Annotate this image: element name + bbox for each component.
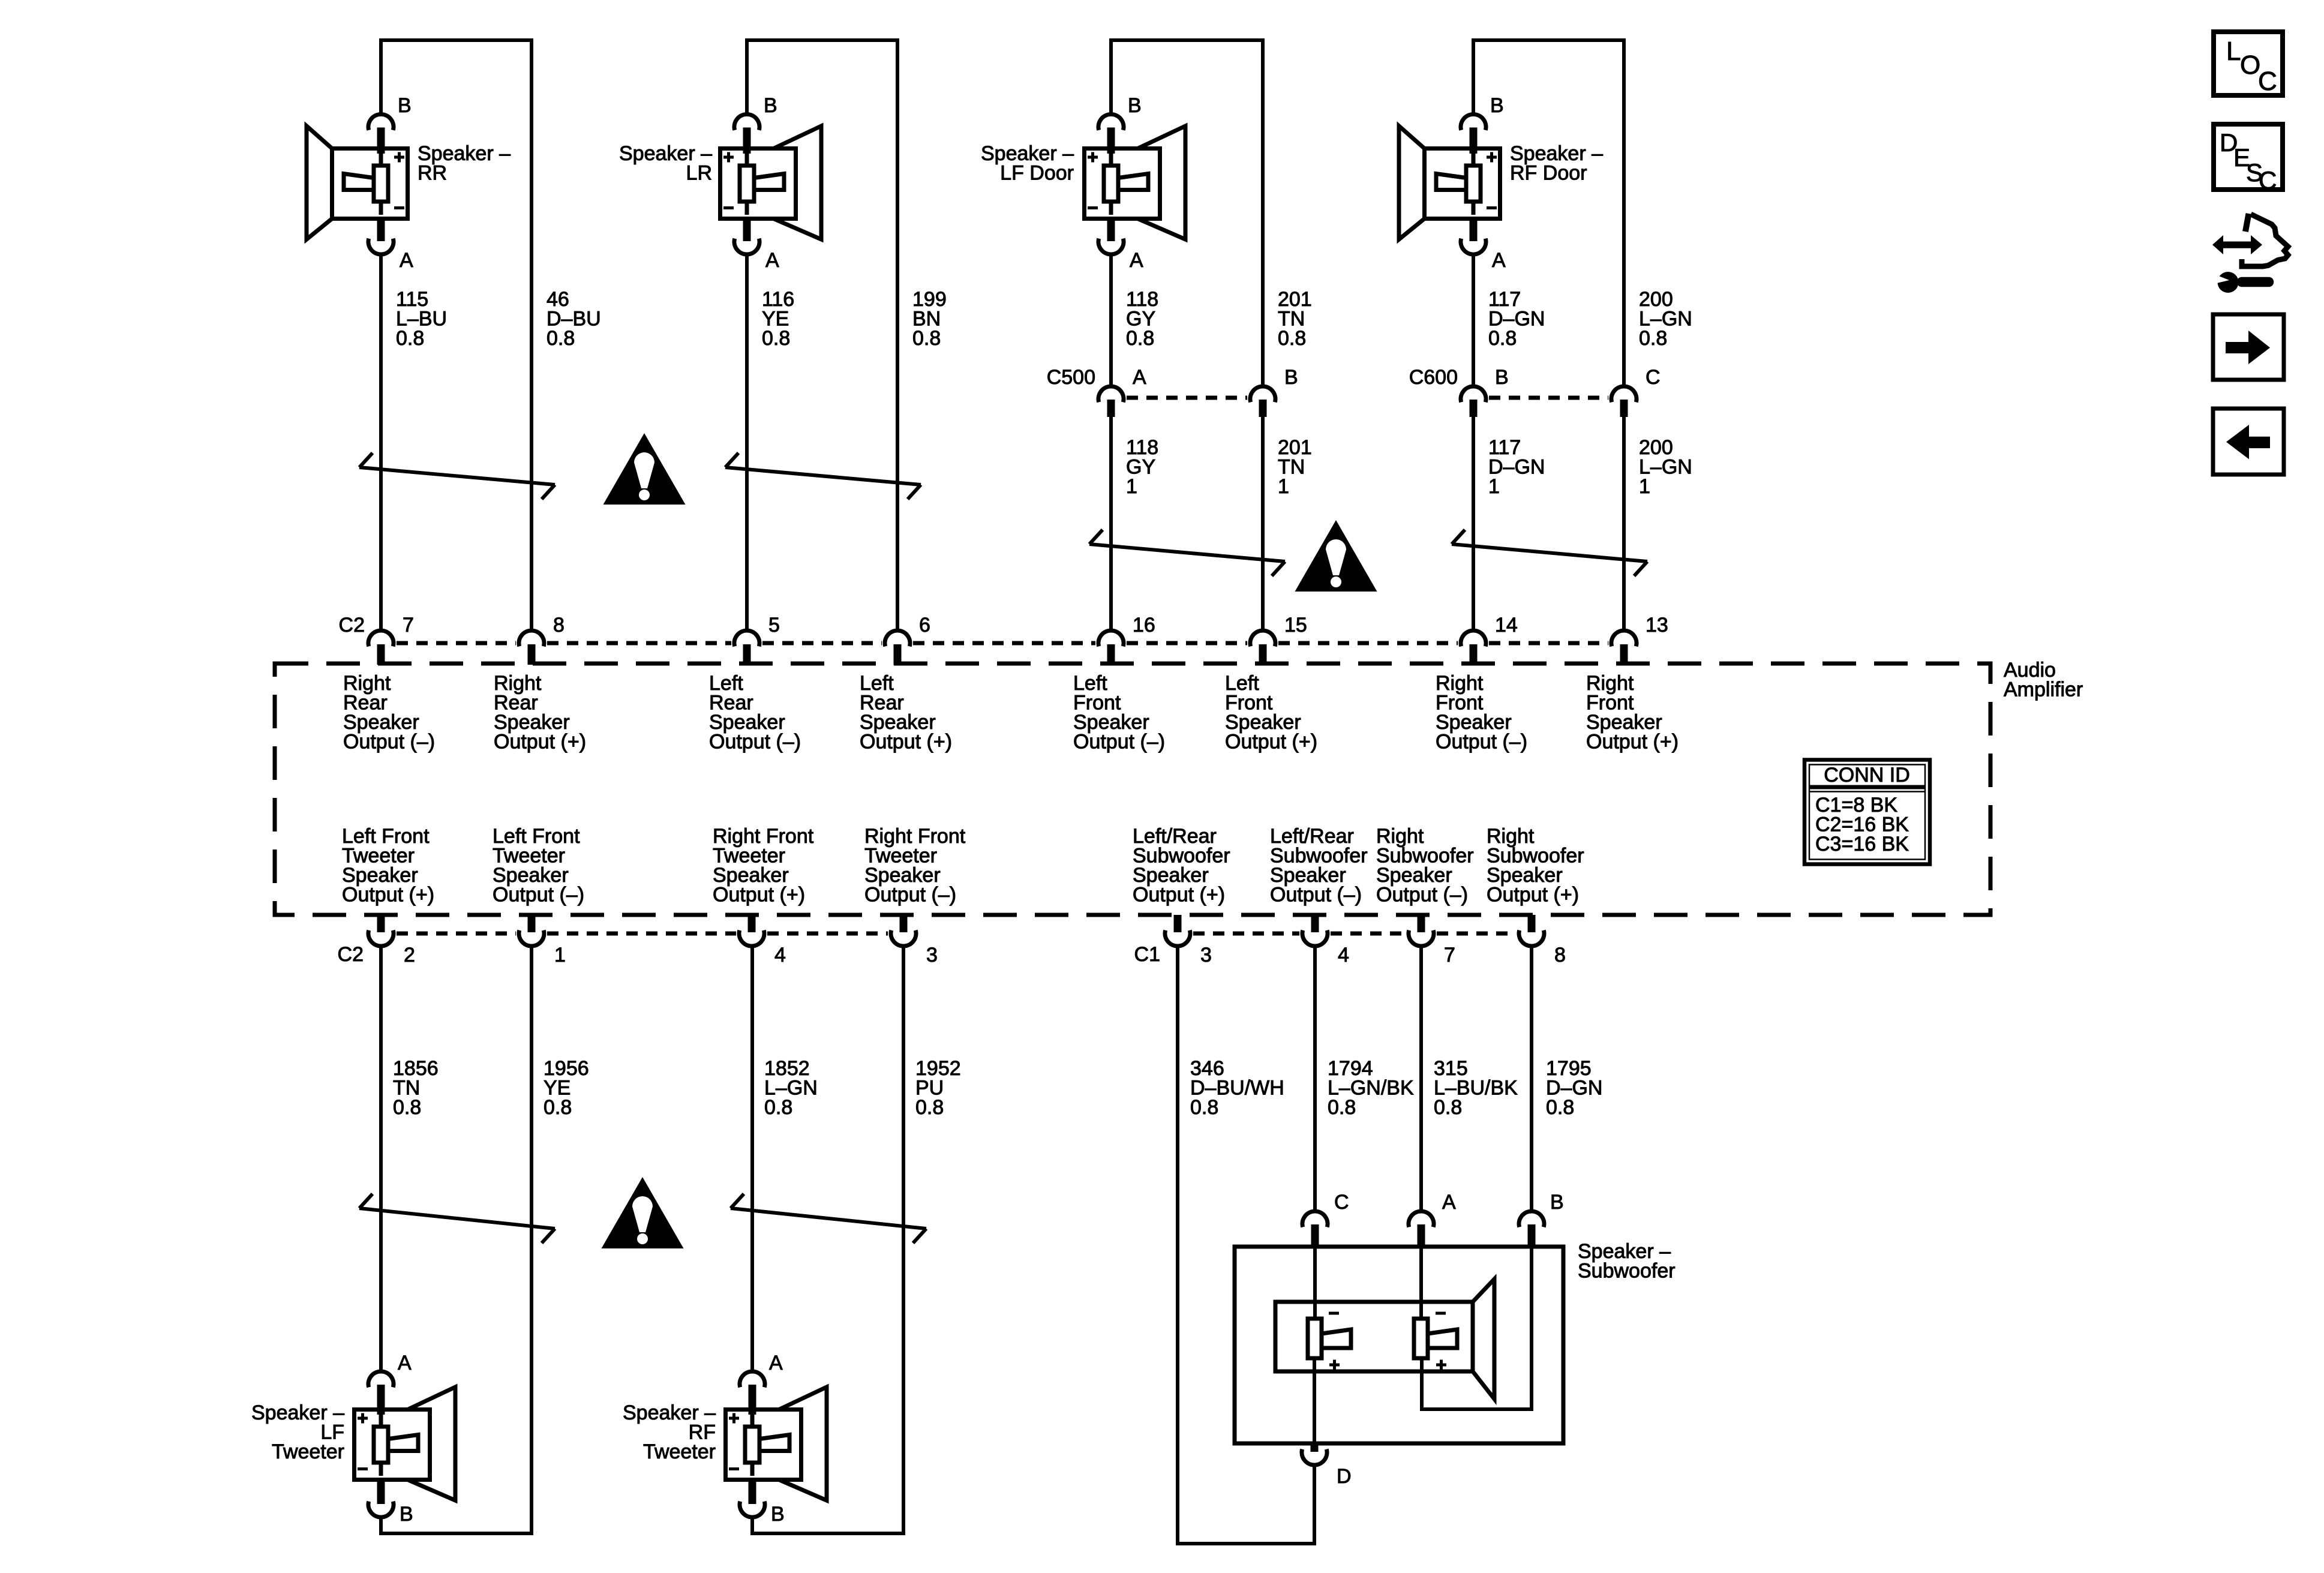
- amplifier pin 5 (top) connector arc: [734, 631, 759, 665]
- speaker RR terminal B connector arc: [368, 115, 394, 130]
- svg-text:C3=16 BK: C3=16 BK: [1815, 833, 1909, 855]
- svg-text:Tweeter: Tweeter: [272, 1440, 344, 1463]
- in-line connector C500 terminal B: [1250, 386, 1275, 417]
- svg-text:B: B: [1128, 94, 1142, 117]
- speaker RF Door terminal B connector arc: [1461, 115, 1486, 130]
- amplifier pin 15 (top) connector arc: [1250, 631, 1275, 665]
- svg-text:Amplifier: Amplifier: [2004, 679, 2083, 701]
- wire 116 YE from LR A to amplifier pin 5: [745, 255, 749, 631]
- icon box back arrow: [2213, 409, 2284, 475]
- amplifier pin 14 (top) connector arc: [1461, 631, 1486, 665]
- wire 117 D-GN lower segment to amplifier pin 14: [1472, 417, 1475, 631]
- svg-text:B: B: [771, 1503, 785, 1526]
- svg-text:15: 15: [1284, 614, 1307, 637]
- svg-text:0.8: 0.8: [1434, 1096, 1462, 1119]
- twisted-pair symbol RF tweeter pair: [731, 1194, 926, 1243]
- warning triangle rear speakers: [603, 433, 686, 505]
- svg-text:Output (+): Output (+): [713, 884, 805, 906]
- wire 1952 PU from amplifier pin 3 to RF tweeter loop: [752, 948, 903, 1533]
- twisted-pair symbol RR pair: [359, 453, 555, 499]
- speaker LF Door body: [1085, 126, 1186, 239]
- subwoofer terminal D connector arc: [1302, 1445, 1327, 1467]
- speaker RF Tweeter body: [726, 1387, 827, 1500]
- amplifier pin 8 (top) connector arc: [519, 631, 544, 665]
- svg-text:C2: C2: [338, 943, 364, 966]
- svg-text:Output (+): Output (+): [1487, 884, 1579, 906]
- in-line connector C500 mating line: [1127, 396, 1247, 400]
- warning triangle tweeter speakers: [602, 1177, 684, 1248]
- speaker LF Tweeter terminal A connector arc: [368, 1371, 394, 1387]
- svg-text:Output (–): Output (–): [1270, 884, 1362, 906]
- svg-text:1: 1: [1639, 475, 1650, 498]
- icon box DESC: [2214, 124, 2283, 194]
- svg-text:0.8: 0.8: [547, 327, 575, 350]
- svg-text:1: 1: [1126, 475, 1137, 498]
- wire 315 L-BU/BK from amplifier pin 7 to subwoofer A: [1419, 948, 1423, 1211]
- speaker RF Tweeter terminal B connector arc: [749, 1480, 756, 1505]
- speaker LF Tweeter body: [355, 1387, 456, 1500]
- wire 1856 TN from amplifier pin 2 to LF tweeter: [379, 948, 383, 1370]
- amplifier pin 4 (bottom) connector arc: [739, 915, 764, 946]
- speaker LR body: [720, 126, 822, 239]
- svg-text:1: 1: [1278, 475, 1289, 498]
- svg-text:C: C: [2259, 166, 2277, 194]
- amplifier pin 16 (top) connector arc: [1098, 631, 1124, 665]
- CONN ID table: [1804, 760, 1930, 864]
- speaker RF Door body: [1399, 126, 1500, 239]
- svg-text:4: 4: [1338, 944, 1349, 966]
- svg-text:Output (+): Output (+): [1586, 731, 1679, 754]
- speaker RR terminal A connector arc: [377, 219, 385, 242]
- svg-text:RF Door: RF Door: [1510, 162, 1587, 185]
- svg-text:A: A: [1442, 1191, 1456, 1214]
- svg-text:Output (–): Output (–): [1073, 731, 1165, 754]
- svg-text:0.8: 0.8: [1328, 1096, 1356, 1119]
- svg-text:0.8: 0.8: [396, 327, 424, 350]
- svg-text:2: 2: [404, 944, 415, 966]
- svg-text:D: D: [1337, 1465, 1352, 1488]
- svg-text:Output (–): Output (–): [864, 884, 956, 906]
- svg-text:B: B: [764, 94, 777, 117]
- svg-text:B: B: [1490, 94, 1504, 117]
- in-line connector C500 terminal A: [1098, 386, 1124, 417]
- svg-text:B: B: [400, 1503, 413, 1526]
- in-line connector C600 terminal C: [1611, 386, 1637, 417]
- warning triangle front door speakers: [1295, 520, 1377, 592]
- svg-text:B: B: [398, 94, 412, 117]
- svg-text:0.8: 0.8: [762, 327, 790, 350]
- svg-text:3: 3: [926, 944, 938, 966]
- svg-text:B: B: [1284, 366, 1298, 389]
- svg-text:8: 8: [1554, 944, 1566, 966]
- connector C2 mating line (bottom): [397, 932, 516, 936]
- amplifier pin 13 (top) connector arc: [1611, 631, 1637, 665]
- connector C2 mating line (top): [397, 641, 516, 646]
- svg-text:C: C: [2258, 67, 2277, 96]
- subwoofer terminal C connector arc: [1302, 1211, 1328, 1247]
- speaker LR terminal A connector arc: [743, 219, 751, 242]
- amplifier pin 6 (top) connector arc: [885, 631, 910, 665]
- svg-text:RR: RR: [418, 162, 447, 185]
- subwoofer dual voice coil housing: [1275, 1302, 1473, 1371]
- svg-text:0.8: 0.8: [1546, 1096, 1574, 1119]
- svg-text:Output (–): Output (–): [1376, 884, 1468, 906]
- svg-text:13: 13: [1646, 614, 1668, 637]
- amplifier pin 1 (bottom) connector arc: [519, 915, 544, 946]
- amplifier pin 7 (top) connector arc: [368, 631, 394, 665]
- twisted-pair symbol LF door pair: [1089, 530, 1285, 576]
- amplifier pin 4 (bottom) connector arc: [1302, 915, 1328, 946]
- svg-text:CONN ID: CONN ID: [1824, 764, 1910, 786]
- svg-text:C500: C500: [1047, 366, 1095, 389]
- svg-text:Output (+): Output (+): [1225, 731, 1317, 754]
- icon connector repair (double arrow, connector outline, wrench): [2212, 214, 2288, 293]
- wire 117 D-GN upper segment: [1472, 255, 1475, 385]
- svg-text:0.8: 0.8: [1488, 327, 1517, 350]
- speaker LR terminal B connector arc: [734, 115, 759, 130]
- svg-text:7: 7: [403, 614, 414, 637]
- in-line connector C600 terminal B: [1461, 386, 1486, 417]
- svg-text:Output (+): Output (+): [1133, 884, 1225, 906]
- twisted-pair symbol LF tweeter pair: [359, 1194, 555, 1243]
- svg-text:Output (+): Output (+): [860, 731, 952, 754]
- wire 1794 L-GN/BK from amplifier pin 4 to subwoofer C: [1313, 948, 1317, 1211]
- svg-text:Output (–): Output (–): [1436, 731, 1527, 754]
- svg-text:LF Door: LF Door: [1000, 162, 1074, 185]
- subwoofer terminal B connector arc: [1519, 1211, 1544, 1247]
- subwoofer voice coil 2: [1414, 1313, 1457, 1370]
- subwoofer internal wire coil 1 to D: [1313, 1358, 1316, 1445]
- twisted-pair symbol RF door pair: [1452, 530, 1647, 576]
- speaker LF Door terminal A connector arc: [1107, 219, 1115, 242]
- svg-text:B: B: [1495, 366, 1509, 389]
- svg-text:A: A: [1130, 249, 1143, 272]
- wire 118 GY upper segment: [1109, 255, 1113, 385]
- svg-text:Output (+): Output (+): [342, 884, 434, 906]
- svg-text:Output (–): Output (–): [709, 731, 801, 754]
- speaker Subwoofer enclosure box: [1235, 1247, 1563, 1443]
- svg-text:0.8: 0.8: [1190, 1096, 1218, 1119]
- subwoofer voice coil 1: [1308, 1313, 1351, 1370]
- wire 115 L-BU from RR A to amplifier pin 7: [379, 255, 383, 631]
- svg-text:A: A: [769, 1352, 783, 1374]
- svg-text:Output (–): Output (–): [493, 884, 584, 906]
- wire speaker RF Door loop (117/200 circuit): [1473, 40, 1624, 385]
- speaker RF Tweeter terminal A connector arc: [740, 1371, 765, 1387]
- svg-text:LR: LR: [686, 162, 712, 185]
- amplifier pin 3 (bottom) connector arc: [1165, 915, 1190, 946]
- amplifier pin 8 (bottom) connector arc: [1519, 915, 1544, 946]
- wire speaker RR loop (115/46 circuit): [381, 40, 532, 631]
- svg-text:Subwoofer: Subwoofer: [1578, 1260, 1676, 1283]
- svg-text:0.8: 0.8: [1278, 327, 1306, 350]
- svg-text:0.8: 0.8: [544, 1096, 572, 1119]
- speaker RF Door terminal A connector arc: [1470, 219, 1478, 242]
- icon box LOC: [2214, 32, 2283, 96]
- in-line connector C600 mating line: [1489, 396, 1608, 400]
- svg-text:1: 1: [1488, 475, 1500, 498]
- svg-text:5: 5: [768, 614, 780, 637]
- svg-text:A: A: [1492, 249, 1506, 272]
- svg-text:C2: C2: [339, 614, 365, 637]
- svg-text:A: A: [1133, 366, 1146, 389]
- svg-text:0.8: 0.8: [764, 1096, 792, 1119]
- svg-text:0.8: 0.8: [393, 1096, 421, 1119]
- subwoofer horn: [1473, 1279, 1494, 1399]
- svg-text:7: 7: [1444, 944, 1455, 966]
- wire 200 L-GN lower segment to amplifier pin 13: [1622, 417, 1626, 631]
- wire speaker LR loop (116/199 circuit): [747, 40, 897, 631]
- svg-text:C: C: [1334, 1191, 1349, 1214]
- wire 1852 L-GN from amplifier pin 4 to RF tweeter: [750, 948, 754, 1370]
- amplifier pin 7 (bottom) connector arc: [1409, 915, 1434, 946]
- svg-text:0.8: 0.8: [1126, 327, 1154, 350]
- svg-text:A: A: [398, 1352, 412, 1374]
- svg-text:Tweeter: Tweeter: [643, 1440, 716, 1463]
- svg-text:C: C: [1646, 366, 1661, 389]
- speaker RR body: [307, 126, 408, 239]
- svg-text:8: 8: [553, 614, 565, 637]
- audio amplifier dashed outline: [275, 664, 1990, 915]
- subwoofer internal wire B to coil 2 (+): [1422, 1247, 1532, 1409]
- speaker LF Tweeter terminal B connector arc: [377, 1480, 385, 1505]
- svg-text:C600: C600: [1409, 366, 1458, 389]
- svg-text:0.8: 0.8: [1639, 327, 1667, 350]
- wire 1956 YE from amplifier pin 1 to LF tweeter loop: [381, 948, 532, 1533]
- amplifier pin 2 (bottom) connector arc: [368, 915, 394, 946]
- svg-text:A: A: [765, 249, 779, 272]
- subwoofer internal wire A to coil 2: [1419, 1247, 1423, 1320]
- svg-text:Output (+): Output (+): [494, 731, 586, 754]
- svg-text:4: 4: [774, 944, 786, 966]
- svg-text:L: L: [2226, 37, 2241, 66]
- icon box forward arrow: [2213, 314, 2284, 380]
- svg-text:Output (–): Output (–): [343, 731, 435, 754]
- subwoofer internal wire C to coil 1: [1313, 1247, 1317, 1320]
- svg-text:0.8: 0.8: [915, 1096, 944, 1119]
- svg-text:16: 16: [1133, 614, 1155, 637]
- svg-text:C1: C1: [1134, 943, 1160, 966]
- wire speaker LF Door loop (118/201 circuit): [1111, 40, 1263, 385]
- wire 201 TN lower segment to amplifier pin 15: [1261, 417, 1265, 631]
- wire 118 GY lower segment to amplifier pin 16: [1109, 417, 1113, 631]
- svg-text:0.8: 0.8: [912, 327, 941, 350]
- speaker LF Door terminal B connector arc: [1098, 115, 1124, 130]
- svg-text:14: 14: [1495, 614, 1518, 637]
- twisted-pair symbol LR pair: [725, 453, 921, 499]
- amplifier pin 3 (bottom) connector arc: [891, 915, 916, 946]
- svg-text:A: A: [400, 249, 413, 272]
- wire 1795 D-GN from amplifier pin 8 to subwoofer B: [1530, 948, 1533, 1211]
- subwoofer terminal A connector arc: [1409, 1211, 1434, 1247]
- wire 346 D-BU/WH from amplifier pin 3 to subwoofer D: [1178, 948, 1314, 1544]
- connector C1 mating line (bottom): [1193, 932, 1299, 936]
- svg-text:1: 1: [554, 944, 566, 966]
- svg-text:B: B: [1550, 1191, 1564, 1214]
- svg-text:6: 6: [919, 614, 930, 637]
- svg-text:3: 3: [1200, 944, 1212, 966]
